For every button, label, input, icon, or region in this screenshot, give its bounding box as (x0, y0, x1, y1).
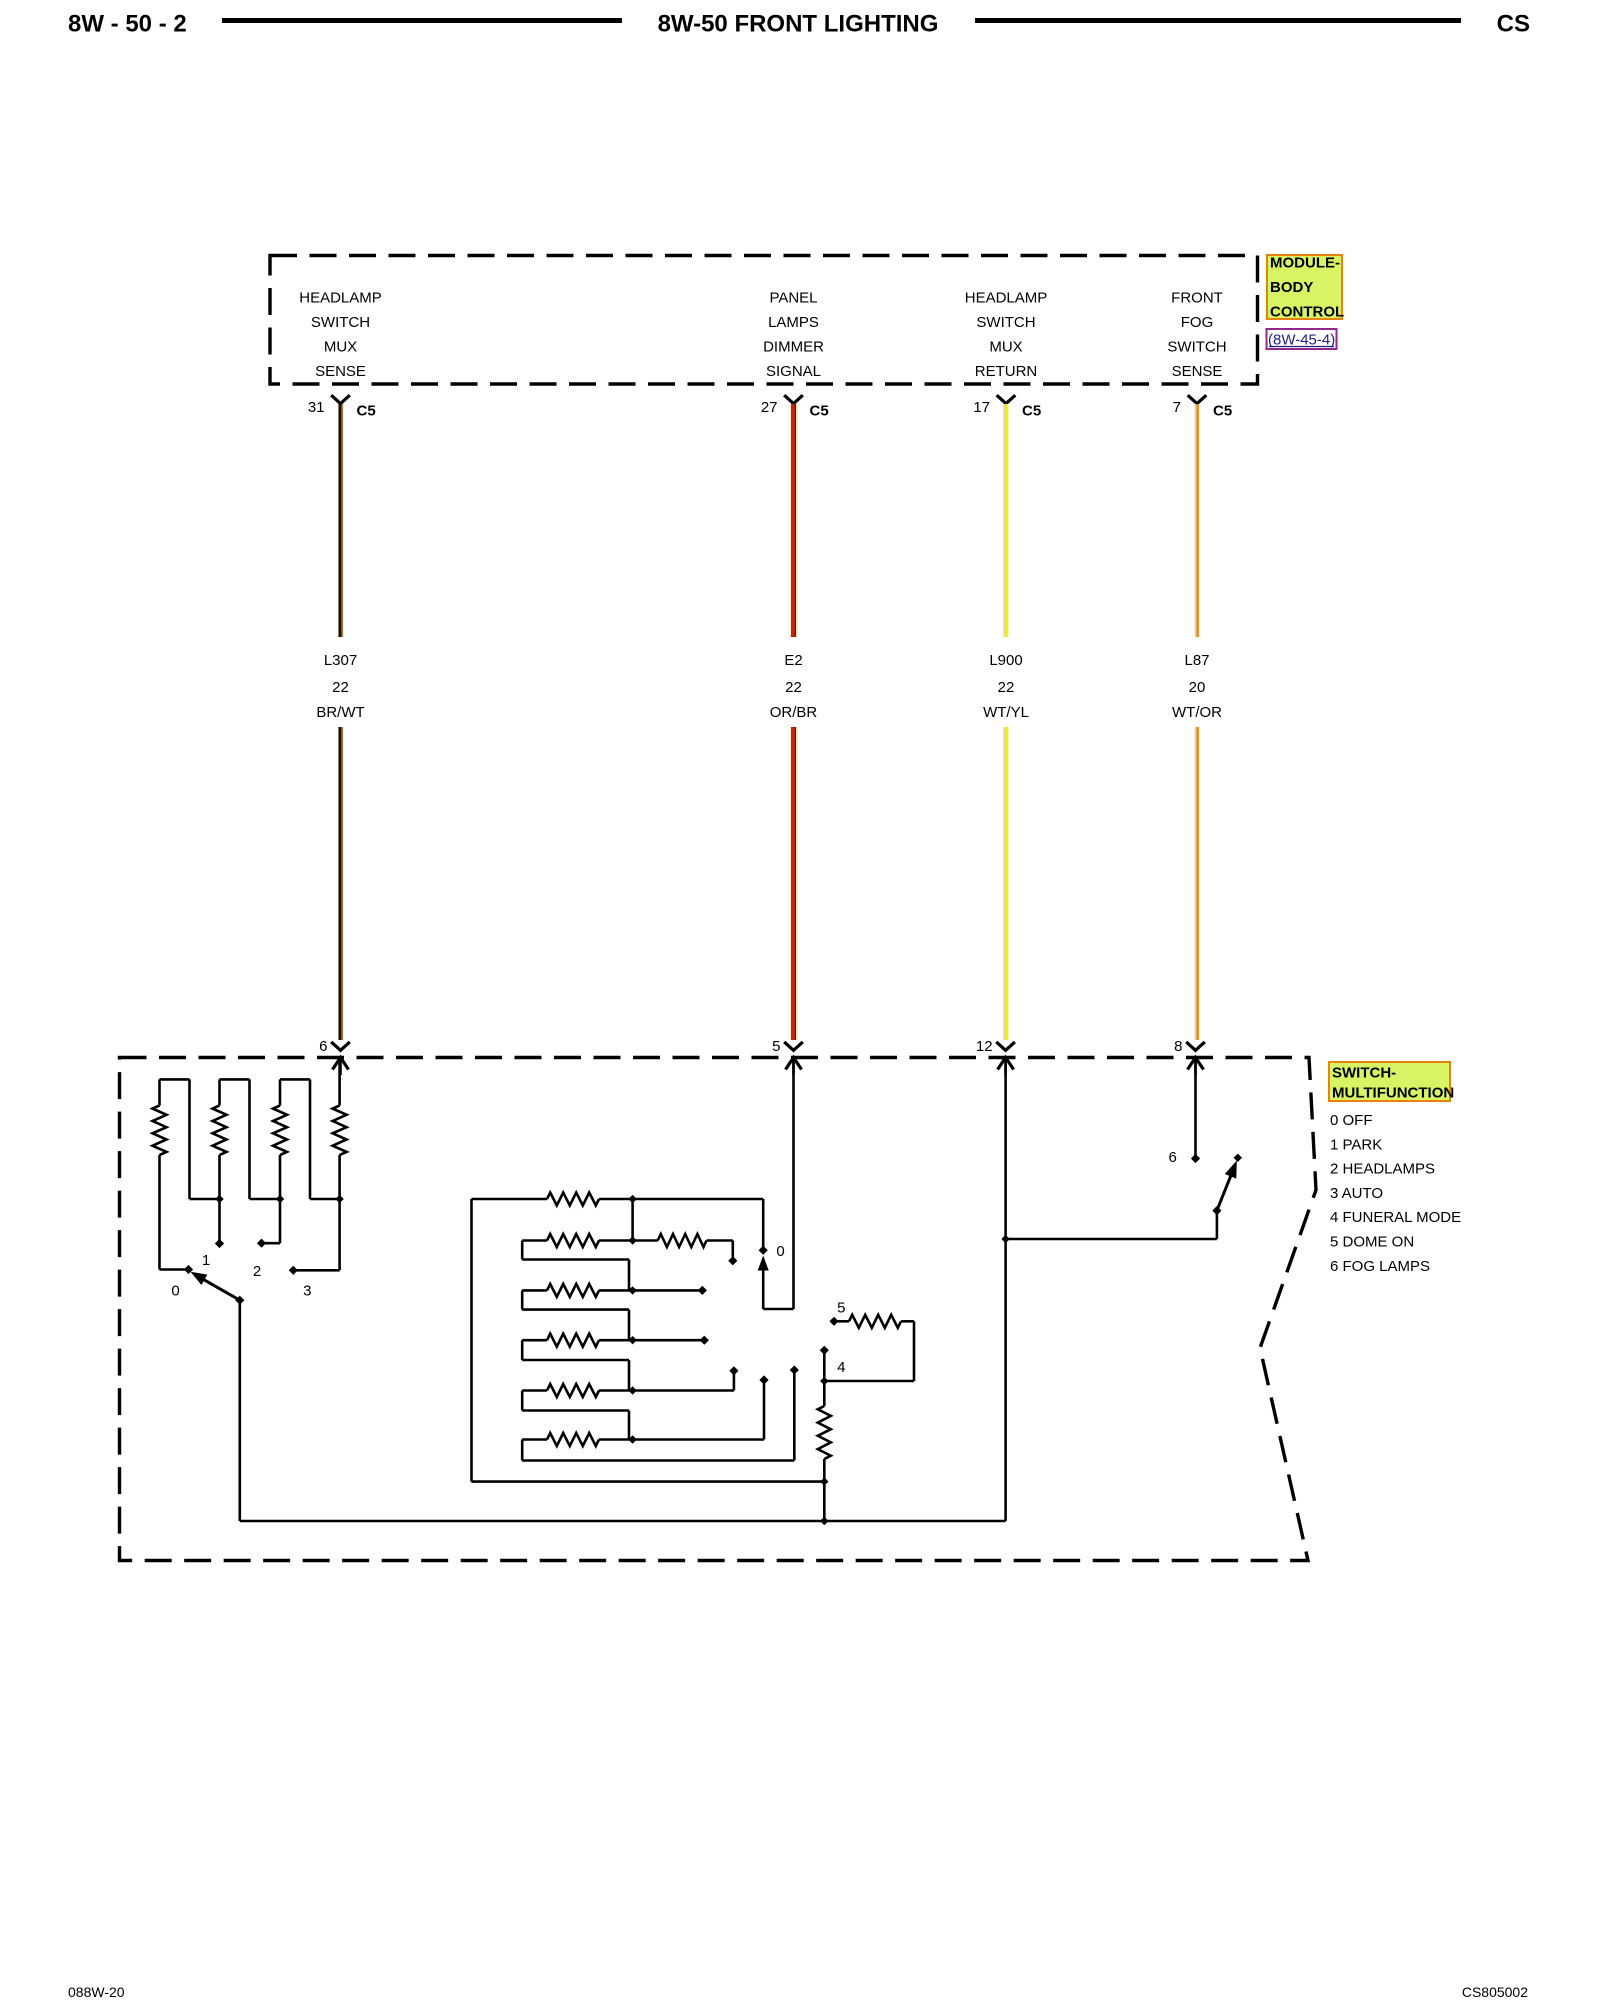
resistor column 2 wiring (220, 1079, 281, 1199)
svg-text:20: 20 (1189, 679, 1206, 696)
row2 left jog down to row3 (522, 1241, 629, 1291)
resistor R-pos4 (vertical) (333, 1106, 347, 1156)
svg-text:8: 8 (1174, 1038, 1182, 1055)
module name highlight: MODULE- BODY CONTROL (1267, 255, 1344, 321)
wire column1 bottom to contact 0 (160, 1155, 189, 1270)
contact 6 (fog) (1191, 1154, 1200, 1163)
wire L307 lower segment (338, 727, 343, 1040)
svg-text:3 AUTO: 3 AUTO (1330, 1185, 1383, 1202)
module reference link (8W-45-4) (1267, 329, 1337, 349)
ladder mux contact 0 fixed (759, 1246, 768, 1255)
left rotary switch pivot (235, 1296, 244, 1305)
ladder resistor row1 (472, 1193, 764, 1251)
module body control dashed box (270, 256, 1258, 385)
left rotary switch arm with arrowhead at contact 0 (191, 1272, 240, 1300)
common bus bottom wire (240, 1520, 1006, 1523)
switch name highlight: SWITCH- MULTIFUNCTION (1329, 1062, 1454, 1102)
svg-text:6 FOG LAMPS: 6 FOG LAMPS (1330, 1258, 1430, 1275)
svg-text:BODY: BODY (1270, 279, 1313, 296)
svg-text:4 FUNERAL MODE: 4 FUNERAL MODE (1330, 1209, 1461, 1226)
wire column2 bottom to contact 1 (218, 1155, 221, 1243)
svg-text:RETURN: RETURN (975, 363, 1038, 380)
wire E2 label (770, 652, 818, 721)
resistor R-pos2 (vertical) (213, 1106, 227, 1156)
ladder contact row2 (728, 1256, 737, 1265)
header rule right (975, 18, 1461, 23)
resistor R-dome (horizontal) (824, 1315, 914, 1381)
ladder contact row5 (729, 1366, 738, 1375)
svg-text:SENSE: SENSE (315, 363, 366, 380)
resistor ladder R-park column 1 wiring (160, 1079, 220, 1199)
contact 1 (left switch) (215, 1239, 224, 1248)
svg-text:12: 12 (976, 1038, 993, 1055)
box entry arrow pin 5 (786, 1058, 802, 1076)
svg-text:6: 6 (1169, 1149, 1177, 1166)
left switch arm shaft down (239, 1300, 242, 1521)
ladder contact row3 (698, 1286, 707, 1295)
junction column4 (335, 1195, 343, 1203)
wire L900 lower segment (1004, 727, 1009, 1040)
svg-text:LAMPS: LAMPS (768, 314, 819, 331)
wire L900 22 WT/YL (pin17 to pin12) upper segment (1004, 404, 1009, 637)
wire L307 22 BR/WT (pin31 to pin6) upper segment (338, 404, 343, 637)
wire E2 22 OR/BR (pin27 to pin5) upper segment (793, 404, 797, 637)
fog switch feed wire (1006, 1211, 1217, 1239)
ladder junction row2 (628, 1236, 636, 1244)
label 6 (fog) (1169, 1149, 1177, 1166)
svg-text:FOG: FOG (1181, 314, 1214, 331)
svg-text:MODULE-: MODULE- (1270, 255, 1340, 272)
wire L87 label (1172, 652, 1222, 721)
page header left: 8W - 50 - 2 (68, 11, 187, 38)
svg-text:PANEL: PANEL (769, 289, 817, 306)
row4 left jog down to row5 (522, 1340, 629, 1390)
svg-text:31: 31 (308, 399, 325, 416)
pin12 internal wire (mux return) (1004, 1059, 1007, 1522)
box entry connector fork pin 12 (976, 1038, 1015, 1055)
wire resistor to bottom bus (823, 1459, 826, 1521)
resistor column 3 wiring (280, 1079, 340, 1199)
svg-text:SWITCH: SWITCH (311, 314, 370, 331)
svg-text:3: 3 (303, 1283, 311, 1300)
label 5 (dome) (837, 1300, 845, 1317)
svg-text:22: 22 (998, 679, 1015, 696)
contact 4 (funeral) (820, 1346, 829, 1355)
svg-text:22: 22 (785, 679, 802, 696)
svg-text:6: 6 (319, 1038, 327, 1055)
svg-text:C5: C5 (357, 403, 376, 420)
resistor column 4 wiring (to pin 6) (338, 1059, 341, 1106)
svg-text:2: 2 (253, 1263, 261, 1280)
svg-text:FRONT: FRONT (1171, 289, 1223, 306)
wire contact4 down to resistor (823, 1350, 826, 1406)
contact 5 (dome) (829, 1317, 838, 1326)
footer left: 088W-20 (68, 1984, 125, 2000)
label 3 (left switch) (303, 1283, 311, 1300)
ladder junction row1 (628, 1195, 636, 1203)
junction column3 (276, 1195, 284, 1203)
ladder resistor row6 (522, 1381, 764, 1447)
box entry arrow pin 12 (998, 1058, 1014, 1076)
svg-text:SENSE: SENSE (1172, 363, 1223, 380)
svg-text:27: 27 (761, 399, 778, 416)
pin label: HEADLAMP SWITCH MUX RETURN (965, 289, 1048, 380)
pin label: HEADLAMP SWITCH MUX SENSE (299, 289, 382, 380)
svg-text:C5: C5 (1022, 403, 1041, 420)
vertical row1-row2 junction link (631, 1199, 634, 1241)
pin5 internal wire (763, 1059, 793, 1310)
label 0 (left switch) (171, 1283, 179, 1300)
svg-text:4: 4 (837, 1359, 845, 1376)
wire E2 lower segment (793, 727, 797, 1040)
svg-text:0: 0 (171, 1283, 179, 1300)
svg-text:22: 22 (332, 679, 349, 696)
ladder resistor row4 (522, 1334, 704, 1347)
svg-text:8W-50 FRONT LIGHTING: 8W-50 FRONT LIGHTING (658, 11, 939, 38)
svg-text:2 HEADLAMPS: 2 HEADLAMPS (1330, 1161, 1435, 1178)
page header right: CS (1497, 11, 1530, 38)
svg-text:L87: L87 (1184, 652, 1209, 669)
svg-text:7: 7 (1173, 399, 1181, 416)
ladder junction row5 (628, 1386, 636, 1394)
svg-text:MUX: MUX (324, 338, 357, 355)
box entry arrow pin 6 (333, 1058, 349, 1076)
junction column2 (215, 1195, 223, 1203)
label 2 (left switch) (253, 1263, 261, 1280)
svg-text:SWITCH: SWITCH (976, 314, 1035, 331)
fog switch arm (open) (1217, 1154, 1242, 1211)
svg-text:MUX: MUX (989, 338, 1022, 355)
junction contact4/dome resistor (820, 1377, 828, 1385)
svg-text:L307: L307 (324, 652, 357, 669)
pin label: PANEL LAMPS DIMMER SIGNAL (763, 289, 824, 380)
svg-text:C5: C5 (1213, 403, 1232, 420)
label 1 (left switch) (202, 1252, 210, 1269)
row5 left jog down to row6 (522, 1391, 629, 1440)
connector C5 pin 17 fork (973, 395, 1041, 419)
wire column3 bottom to contact 2 (262, 1155, 280, 1243)
svg-text:CONTROL: CONTROL (1270, 304, 1344, 321)
page title: 8W-50 FRONT LIGHTING (658, 11, 939, 38)
wire L87 20 WT/OR (pin7 to pin8) upper segment (1195, 404, 1199, 637)
ladder junction row3 (628, 1286, 636, 1294)
connector C5 pin 31 fork (308, 395, 376, 419)
svg-text:BR/WT: BR/WT (316, 704, 364, 721)
resistor R-funeral (vertical) (818, 1406, 831, 1459)
connector C5 pin 27 fork (761, 395, 829, 419)
pin8 internal wire to contact 6 (1194, 1059, 1197, 1159)
svg-text:5 DOME ON: 5 DOME ON (1330, 1234, 1414, 1251)
switch multifunction dashed box outline (120, 1058, 1317, 1561)
box entry arrow pin 8 (1188, 1058, 1204, 1076)
box entry connector fork pin 5 (772, 1038, 803, 1055)
svg-text:8W - 50 - 2: 8W - 50 - 2 (68, 11, 187, 38)
svg-text:5: 5 (837, 1300, 845, 1317)
contact 2 (left switch) (257, 1239, 266, 1248)
wire L87 lower segment (1195, 727, 1199, 1040)
resistor R-pos1 (vertical) (153, 1106, 167, 1156)
pin label: FRONT FOG SWITCH SENSE (1167, 289, 1226, 380)
svg-text:088W-20: 088W-20 (68, 1984, 125, 2000)
svg-text:SIGNAL: SIGNAL (766, 363, 821, 380)
svg-text:1: 1 (202, 1252, 210, 1269)
svg-text:HEADLAMP: HEADLAMP (965, 289, 1048, 306)
svg-text:CS805002: CS805002 (1462, 1984, 1528, 2000)
mux wiper arrow (to dimmer signal) (758, 1256, 769, 1310)
svg-text:E2: E2 (784, 652, 802, 669)
contact 0 (left switch) (184, 1265, 193, 1274)
svg-text:L900: L900 (989, 652, 1022, 669)
svg-text:WT/YL: WT/YL (983, 704, 1029, 721)
wire L307 label (316, 652, 364, 721)
ladder left bus (472, 1199, 825, 1482)
ladder contact row4 (700, 1336, 709, 1345)
box entry connector fork pin 8 (1174, 1038, 1205, 1055)
ladder junction row4 (628, 1336, 636, 1344)
svg-text:0 OFF: 0 OFF (1330, 1112, 1373, 1129)
svg-text:OR/BR: OR/BR (770, 704, 818, 721)
ladder junction row6 (628, 1435, 636, 1443)
svg-text:0: 0 (776, 1243, 784, 1260)
svg-text:CS: CS (1497, 11, 1530, 38)
svg-text:C5: C5 (810, 403, 829, 420)
row6 left jog to far contact (522, 1371, 794, 1461)
junction bottom wire / funeral resistor (820, 1517, 828, 1525)
svg-text:SWITCH-: SWITCH- (1332, 1065, 1396, 1082)
row3 left jog down to row4 (522, 1290, 629, 1340)
junction pin12 / fog feed (1001, 1235, 1009, 1243)
wire column4 bottom to contact 3 (293, 1155, 340, 1270)
ladder resistor row2 (two resistors) (522, 1234, 733, 1260)
footer right: CS805002 (1462, 1984, 1528, 2000)
header rule left (222, 18, 622, 23)
svg-text:5: 5 (772, 1038, 780, 1055)
box entry connector fork pin 6 (319, 1038, 350, 1055)
svg-text:DIMMER: DIMMER (763, 338, 824, 355)
switch position legend (1330, 1112, 1461, 1275)
svg-text:SWITCH: SWITCH (1167, 338, 1226, 355)
svg-text:1 PARK: 1 PARK (1330, 1136, 1382, 1153)
junction ladder bus / funeral resistor (820, 1477, 828, 1485)
contact 3 (left switch) (289, 1266, 298, 1275)
svg-text:MULTIFUNCTION: MULTIFUNCTION (1332, 1085, 1454, 1102)
svg-text:HEADLAMP: HEADLAMP (299, 289, 382, 306)
svg-text:17: 17 (973, 399, 990, 416)
label 4 (funeral) (837, 1359, 845, 1376)
label 0 (mux wiper) (776, 1243, 784, 1260)
ladder contact far (row6 jog) (790, 1365, 799, 1374)
ladder resistor row3 (522, 1284, 702, 1297)
ladder resistor row5 (522, 1372, 734, 1398)
resistor R-pos3 (vertical) (273, 1106, 287, 1156)
svg-text:WT/OR: WT/OR (1172, 704, 1222, 721)
ladder contact row6 (759, 1375, 768, 1384)
connector C5 pin 7 fork (1173, 395, 1233, 419)
fog switch pivot (1212, 1206, 1221, 1215)
wire L900 label (983, 652, 1029, 721)
